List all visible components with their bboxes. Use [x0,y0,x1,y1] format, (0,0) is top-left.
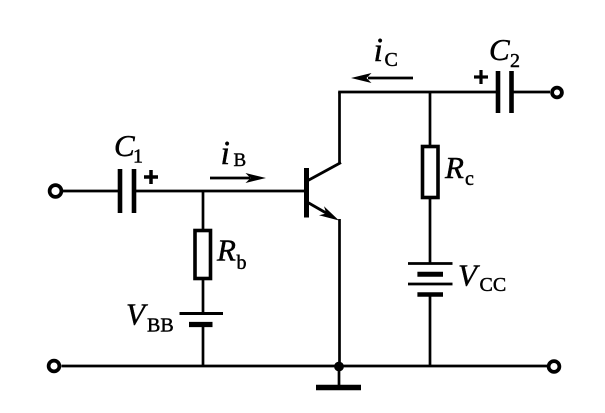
plus sign C2 polarity [474,70,488,84]
svg-text:1: 1 [133,146,143,168]
current label iB [221,135,247,172]
svg-text:i: i [374,32,383,69]
current label iC [374,32,398,71]
terminal input left [50,185,62,197]
plus sign C1 polarity [144,170,158,184]
capacitor C2 [498,71,512,113]
terminal bottom right [549,361,560,372]
arrow iB [210,173,266,183]
label C2 [489,32,520,72]
wire Rb to VBB [202,279,205,314]
arrow iC [351,73,413,83]
svg-text:C: C [385,49,398,71]
ground stub [338,366,341,386]
wire input to C1 [62,190,119,193]
battery VCC [408,264,453,295]
transistor Q1 emitter diagonal [307,202,327,214]
svg-text:C: C [489,32,510,67]
battery VBB [180,314,224,325]
wire C2 to output terminal [514,91,551,94]
svg-text:R: R [444,150,464,185]
ground bar [316,385,361,390]
wire node B down to Rb [202,191,205,230]
terminal output right [552,88,562,98]
wire Rc to VCC [429,197,432,263]
label C1 [114,128,143,168]
wire VBB to bottom rail [202,327,205,367]
label Rc [444,150,474,190]
svg-text:V: V [458,258,480,293]
wire emitter down to ground node [338,219,341,366]
junction dot emitter ground node [334,362,344,372]
wire collector up [338,92,341,164]
top rail collector node [338,91,497,94]
svg-text:2: 2 [510,50,520,72]
bottom rail [62,365,548,368]
transistor Q1 emitter arrowhead [319,206,339,220]
wire top rail down to Rc [429,92,432,146]
transistor Q1 base bar [304,168,309,218]
resistor Rc [423,147,439,198]
label Rb [216,233,247,275]
capacitor C1 [120,169,134,213]
svg-text:V: V [126,297,148,332]
svg-text:CC: CC [480,274,507,296]
svg-text:c: c [465,168,474,190]
transistor Q1 collector diagonal [307,163,341,182]
svg-text:BB: BB [147,315,174,337]
resistor Rb [195,231,211,279]
svg-text:B: B [234,150,247,171]
label VBB [126,297,174,337]
svg-text:b: b [237,252,247,274]
wire C1 to base (node B) [136,190,304,193]
svg-text:C: C [114,128,135,163]
wire VCC to bottom rail [429,296,432,366]
svg-text:R: R [216,233,236,268]
label VCC [458,258,506,297]
svg-text:i: i [221,135,230,172]
terminal bottom left [49,361,60,372]
